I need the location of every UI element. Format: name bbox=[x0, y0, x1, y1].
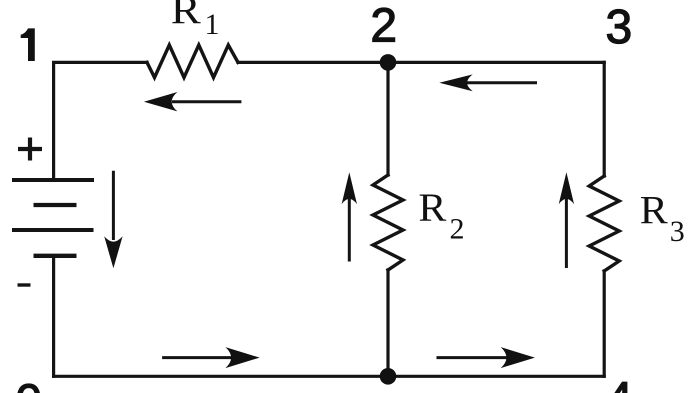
current arrow R3 (up) bbox=[559, 172, 574, 268]
wire right vertical: R3 to node4 corner bbox=[603, 271, 606, 376]
svg-text:R: R bbox=[418, 185, 446, 230]
wire right vertical: corner3 down to R3 bbox=[603, 62, 606, 176]
current arrow R2 (up) bbox=[342, 172, 357, 261]
battery minus label bbox=[18, 283, 31, 286]
svg-text:4: 4 bbox=[606, 374, 633, 393]
node label 1 bbox=[21, 28, 35, 61]
svg-text:R: R bbox=[171, 0, 201, 33]
resistor R2 bbox=[373, 175, 403, 270]
battery V1 bbox=[12, 180, 94, 256]
wire middle vertical: R2 to bottom node bbox=[386, 270, 389, 376]
svg-text:R: R bbox=[640, 188, 668, 233]
current arrow under R1 (left) bbox=[144, 92, 242, 111]
battery plus label bbox=[18, 138, 42, 161]
wire top-middle: R1 to node2 to corner3 bbox=[238, 61, 604, 64]
svg-text:3: 3 bbox=[670, 215, 685, 248]
svg-text:2: 2 bbox=[450, 213, 465, 246]
svg-text:2: 2 bbox=[370, 0, 397, 53]
wire bottom bbox=[54, 375, 605, 378]
current arrow bottom-right (right) bbox=[437, 347, 535, 368]
node 0-4 junction dot bbox=[380, 368, 397, 385]
wire left-bottom: battery minus to node0 corner bbox=[52, 256, 55, 376]
svg-text:3: 3 bbox=[605, 1, 632, 54]
current arrow battery (down) bbox=[104, 171, 122, 269]
wire middle vertical: node2 down to R2 bbox=[386, 62, 389, 175]
node 2 junction dot bbox=[380, 54, 397, 71]
svg-text:1: 1 bbox=[205, 8, 220, 41]
resistor R1 bbox=[147, 45, 238, 78]
current arrow top-right (left) bbox=[439, 74, 537, 91]
current arrow bottom-left (right) bbox=[162, 347, 260, 368]
svg-text:0: 0 bbox=[15, 376, 42, 393]
resistor R3 bbox=[589, 176, 619, 271]
wire top-left: node1 to R1 bbox=[54, 62, 147, 180]
